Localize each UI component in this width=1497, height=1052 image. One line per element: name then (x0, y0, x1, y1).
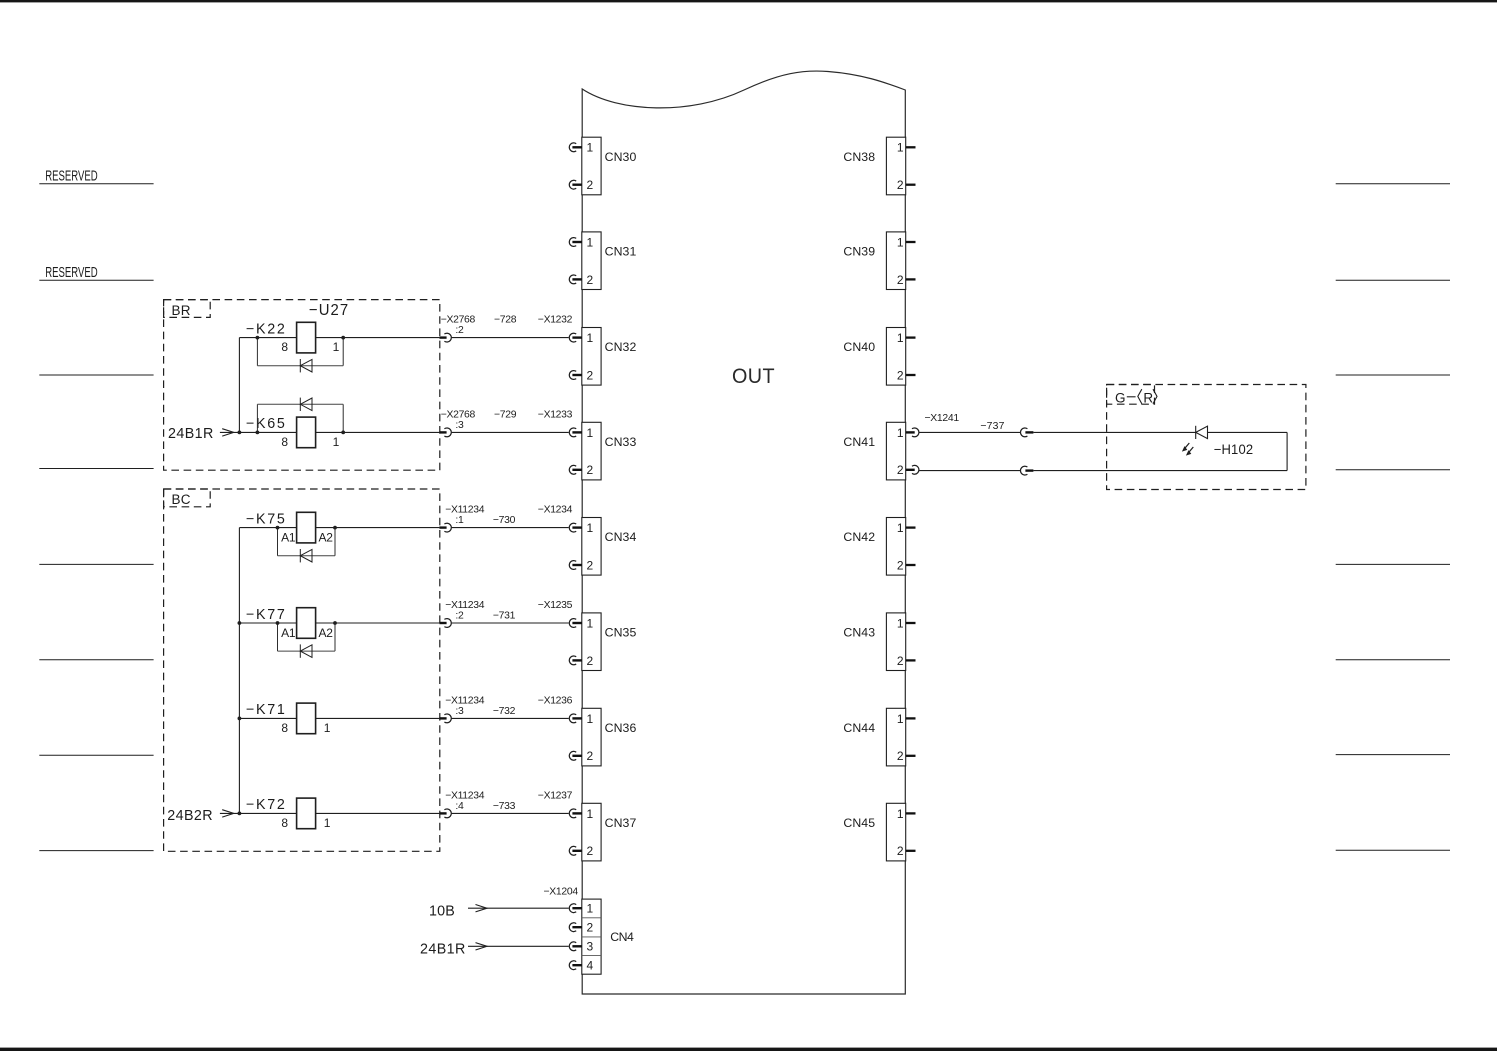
svg-text:−731: −731 (493, 611, 516, 622)
svg-text:−X1233: −X1233 (538, 409, 573, 420)
A1/A2 labels K75 (281, 531, 333, 545)
svg-text:2: 2 (587, 178, 594, 192)
connector CN43 (843, 613, 905, 671)
svg-text:8: 8 (281, 816, 288, 830)
wire 24B1R entry (220, 429, 240, 436)
svg-text:−X2768: −X2768 (441, 315, 476, 326)
relay coil -K71 (297, 703, 316, 734)
svg-text:CN38: CN38 (843, 150, 875, 164)
svg-text:CN4: CN4 (610, 930, 634, 944)
junction 24B2R rail (238, 812, 242, 816)
connector CN32 (582, 328, 637, 386)
svg-text:1: 1 (897, 141, 904, 155)
pin 2 socket of CN31 (569, 275, 582, 284)
svg-text:8: 8 (281, 340, 288, 354)
svg-text:CN37: CN37 (605, 816, 637, 830)
svg-text:10B: 10B (429, 903, 455, 919)
suppressor diode loop of -K65 (257, 398, 343, 433)
connector CN38 (843, 137, 905, 195)
svg-text:1: 1 (897, 426, 904, 440)
terminal row line (right margin) (1336, 279, 1450, 281)
junction dots -K77 (276, 621, 337, 625)
pin 1 socket of CN31 (569, 238, 582, 247)
LED emission arrows (1182, 443, 1193, 456)
svg-text:CN31: CN31 (605, 245, 637, 259)
terminal row line (right margin) (1336, 563, 1450, 565)
connector CN34 (582, 518, 637, 576)
svg-text:−K65: −K65 (246, 416, 287, 432)
terminal socket at enclosure edge (row CN37) (439, 809, 451, 818)
svg-text::4: :4 (455, 801, 464, 812)
BR rail wire (238, 338, 240, 433)
svg-text:RESERVED: RESERVED (45, 264, 97, 281)
svg-text:CN43: CN43 (843, 626, 875, 640)
pin 2 stub of CN38 (906, 184, 916, 186)
terminal row line (right margin) (1336, 659, 1450, 661)
connector CN42 (843, 518, 905, 576)
svg-text:24B1R: 24B1R (420, 941, 466, 957)
pin 1 stub of CN45 (906, 812, 916, 814)
connector CN40 (843, 328, 905, 386)
junction 24B1R rail (238, 431, 242, 435)
wire 737 continues (1033, 431, 1195, 433)
svg-text:−X11234: −X11234 (445, 790, 485, 801)
svg-text:2: 2 (587, 368, 594, 382)
svg-text:1: 1 (587, 902, 594, 916)
svg-text:1: 1 (897, 521, 904, 535)
svg-text:2: 2 (897, 654, 904, 668)
svg-text:−X1236: −X1236 (538, 695, 573, 706)
connector CN45 (843, 803, 905, 861)
wire rail to coil -K72 (239, 812, 296, 814)
dashed enclosure BC (164, 489, 440, 851)
wire to CN33 pin 1 (452, 431, 569, 433)
wire coil to terminal -K65 (316, 431, 440, 433)
svg-text:−K77: −K77 (246, 607, 287, 623)
svg-text:1: 1 (587, 426, 594, 440)
svg-text:−U27: −U27 (309, 302, 349, 320)
relay coil -K77 (297, 608, 316, 639)
svg-text:2: 2 (897, 368, 904, 382)
pin 1 stub of CN38 (906, 146, 916, 148)
pin 2 socket of CN36 (569, 751, 582, 760)
junction dots -K75 (276, 526, 337, 530)
wire to CN37 pin 1 (452, 812, 569, 814)
svg-text:−729: −729 (494, 409, 517, 420)
connector CN4 (582, 899, 634, 974)
pin 1 socket of CN33 (569, 428, 582, 437)
pin 2 stub of CN43 (906, 659, 916, 661)
wire 24B1R to CN4:3 (468, 943, 569, 950)
svg-text:1: 1 (587, 141, 594, 155)
svg-text::2: :2 (455, 611, 464, 622)
svg-text:2: 2 (897, 749, 904, 763)
connector CN39 (843, 232, 905, 290)
wire rail to coil -K22 (239, 337, 296, 339)
wire CN41:1 to lamp (919, 431, 1020, 433)
svg-text:−K71: −K71 (246, 702, 287, 718)
svg-text:1: 1 (333, 340, 340, 354)
connector CN30 (582, 137, 637, 195)
terminal socket at enclosure edge (row CN36) (439, 714, 451, 723)
connector CN31 (582, 232, 637, 290)
wire coil to terminal -K22 (316, 337, 440, 339)
svg-text:CN33: CN33 (605, 435, 637, 449)
CN4 pin socket (569, 923, 582, 932)
svg-text::1: :1 (455, 515, 464, 526)
svg-text:2: 2 (587, 654, 594, 668)
svg-text:R: R (1143, 390, 1153, 405)
pin 1 stub of CN43 (906, 622, 916, 624)
inline connector on return wire (1020, 466, 1033, 475)
pin 2 stub of CN40 (906, 374, 916, 376)
dashed enclosure G-(R) (1107, 385, 1306, 490)
wire coil to terminal -K77 (316, 622, 440, 624)
terminal row line (left margin) (39, 563, 153, 565)
svg-text:2: 2 (897, 178, 904, 192)
pin 2 socket of CN34 (569, 561, 582, 570)
svg-text:−X1232: −X1232 (538, 315, 573, 326)
terminal row line (left margin) (39, 754, 153, 756)
wire coil to terminal -K75 (316, 527, 440, 529)
svg-text:1: 1 (897, 235, 904, 249)
relay coil -K72 (297, 798, 316, 829)
wire to CN36 pin 1 (452, 717, 569, 719)
pin 1 socket of CN37 (569, 809, 582, 818)
suppressor diode loop of -K75 (278, 528, 336, 563)
connector CN44 (843, 708, 905, 766)
svg-text:−H102: −H102 (1214, 441, 1254, 457)
svg-text:CN30: CN30 (605, 150, 637, 164)
svg-text:A1: A1 (281, 531, 296, 545)
pin 1 socket of CN35 (569, 619, 582, 628)
BC tag box (164, 489, 211, 507)
svg-text:CN40: CN40 (843, 340, 875, 354)
relay coil -K75 (297, 512, 316, 543)
pin 2 socket of CN33 (569, 465, 582, 474)
svg-text:RESERVED: RESERVED (45, 167, 97, 184)
pin 2 socket of CN30 (569, 180, 582, 189)
wire to CN35 pin 1 (452, 622, 569, 624)
svg-text:−X1237: −X1237 (538, 790, 573, 801)
A1/A2 labels K77 (281, 626, 333, 640)
svg-text:1: 1 (587, 807, 594, 821)
svg-text:−X11234: −X11234 (445, 695, 485, 706)
wire coil to terminal -K71 (316, 717, 440, 719)
wire rail to coil -K77 (239, 622, 296, 624)
svg-text:1: 1 (897, 807, 904, 821)
pin 1 socket of CN30 (569, 143, 582, 152)
svg-text:−732: −732 (493, 706, 516, 717)
svg-text:2: 2 (897, 844, 904, 858)
connector CN41 (843, 422, 905, 480)
terminal row line (right margin) (1336, 469, 1450, 471)
lamp loop wire (1208, 432, 1288, 470)
svg-text:CN34: CN34 (605, 530, 637, 544)
pin 2 socket of CN32 (569, 371, 582, 380)
wire 24B2R entry (220, 810, 240, 817)
dashed enclosure BR (164, 300, 440, 471)
BC rail wire (238, 528, 240, 814)
pin 1 stub of CN42 (906, 526, 916, 528)
svg-text:2: 2 (587, 921, 594, 935)
wire rail to coil -K71 (239, 717, 296, 719)
CN4 pin socket (569, 961, 582, 970)
terminal socket at enclosure edge (row CN33) (439, 428, 451, 437)
svg-text:1: 1 (587, 235, 594, 249)
connector CN33 (582, 422, 637, 480)
svg-text:1: 1 (324, 816, 331, 830)
G-(R) tag text (1115, 389, 1157, 405)
svg-text:1: 1 (324, 721, 331, 735)
pin 2 stub of CN45 (906, 850, 916, 852)
svg-text:1: 1 (897, 331, 904, 345)
pin 2 socket of CN41 (906, 465, 919, 474)
svg-text:OUT: OUT (732, 364, 775, 388)
pin 1 stub of CN44 (906, 717, 916, 719)
svg-text:4: 4 (587, 959, 594, 973)
svg-text:1: 1 (587, 712, 594, 726)
terminal row line (right margin) (1336, 849, 1450, 851)
svg-text:CN41: CN41 (843, 435, 875, 449)
svg-text:−K75: −K75 (246, 511, 287, 527)
BR tag box (164, 300, 211, 318)
svg-text:A1: A1 (281, 626, 296, 640)
svg-text:−X1241: −X1241 (925, 413, 960, 424)
suppressor diode loop of -K22 (257, 338, 343, 373)
svg-text:2: 2 (587, 273, 594, 287)
svg-text:−X1204: −X1204 (544, 886, 579, 897)
svg-text:CN32: CN32 (605, 340, 637, 354)
svg-text:−X1234: −X1234 (538, 505, 573, 516)
junction K77 rail (238, 621, 242, 625)
suppressor diode loop of -K77 (278, 623, 336, 658)
svg-text:2: 2 (587, 558, 594, 572)
pin 1 socket of CN34 (569, 523, 582, 532)
terminal row line (left margin) (39, 659, 153, 661)
svg-text:2: 2 (897, 273, 904, 287)
relay coil -K22 (297, 322, 316, 353)
svg-text:−K72: −K72 (246, 797, 287, 813)
svg-text:−728: −728 (494, 315, 517, 326)
svg-text:−737: −737 (980, 421, 1004, 432)
wire coil to terminal -K72 (316, 812, 440, 814)
terminal row line (right margin) (1336, 374, 1450, 376)
terminal row line (right margin) (1336, 754, 1450, 756)
svg-text:3: 3 (587, 940, 594, 954)
svg-text:−X11234: −X11234 (445, 600, 485, 611)
CN4 pin socket (569, 904, 582, 913)
svg-text:2: 2 (587, 749, 594, 763)
svg-text:2: 2 (587, 463, 594, 477)
reserved row 1 line (39, 183, 153, 185)
svg-text:CN36: CN36 (605, 721, 637, 735)
svg-text:CN45: CN45 (843, 816, 875, 830)
svg-text::3: :3 (455, 420, 464, 431)
svg-text:CN42: CN42 (843, 530, 875, 544)
return wire to lamp loop (1033, 470, 1287, 472)
svg-text:8: 8 (281, 435, 288, 449)
svg-text::2: :2 (455, 325, 464, 336)
svg-text:24B2R: 24B2R (167, 808, 213, 824)
svg-text:−730: −730 (493, 515, 516, 526)
pin 1 stub of CN40 (906, 336, 916, 338)
svg-text:1: 1 (897, 616, 904, 630)
svg-text:A2: A2 (319, 626, 334, 640)
svg-text:−X11234: −X11234 (445, 505, 485, 516)
wire rail to coil -K75 (239, 527, 296, 529)
terminal row line (left margin) (39, 850, 153, 852)
svg-text:1: 1 (587, 616, 594, 630)
svg-text:BC: BC (172, 492, 191, 507)
reserved row 2 line (39, 279, 153, 281)
svg-text:1: 1 (587, 521, 594, 535)
junction dots -K22 (256, 336, 346, 340)
svg-text::3: :3 (455, 706, 464, 717)
wire to CN32 pin 1 (452, 337, 569, 339)
module OUT outline (torn top edge) (582, 71, 905, 994)
terminal socket at enclosure edge (row CN32) (439, 333, 451, 342)
svg-text:−K22: −K22 (246, 321, 287, 337)
pin 2 stub of CN42 (906, 564, 916, 566)
svg-text:1: 1 (897, 712, 904, 726)
pin 2 socket of CN37 (569, 846, 582, 855)
wire 10B to CN4:1 (468, 905, 569, 912)
LED -H102 (1196, 426, 1208, 439)
svg-text:−X2768: −X2768 (441, 409, 476, 420)
connector CN35 (582, 613, 637, 671)
svg-text:−X1235: −X1235 (538, 600, 573, 611)
svg-text:−733: −733 (493, 801, 516, 812)
pin 1 stub of CN39 (906, 241, 916, 243)
svg-text:CN35: CN35 (605, 626, 637, 640)
junction K71 rail (238, 717, 242, 721)
svg-text:BR: BR (172, 303, 191, 318)
svg-text:CN39: CN39 (843, 245, 875, 259)
svg-text:2: 2 (897, 463, 904, 477)
pin 1 socket of CN32 (569, 333, 582, 342)
relay coil -K65 (297, 417, 316, 448)
wire rail to coil -K65 (239, 431, 296, 433)
wire to CN34 pin 1 (452, 527, 569, 529)
pin 2 stub of CN44 (906, 755, 916, 757)
pin 1 socket of CN36 (569, 714, 582, 723)
pin 2 stub of CN39 (906, 278, 916, 280)
svg-text:24B1R: 24B1R (168, 426, 214, 442)
svg-text:CN44: CN44 (843, 721, 875, 735)
terminal socket at enclosure edge (row CN35) (439, 619, 451, 628)
svg-text:1: 1 (333, 435, 340, 449)
pin 1 socket of CN41 (906, 428, 919, 437)
connector CN37 (582, 803, 637, 861)
svg-text:A2: A2 (319, 531, 334, 545)
terminal row line (left margin) (39, 374, 153, 376)
connector CN36 (582, 708, 637, 766)
svg-text:G: G (1115, 390, 1126, 405)
inline connector on wire 737 (1020, 428, 1033, 437)
svg-text:2: 2 (897, 558, 904, 572)
terminal row line (right margin) (1336, 183, 1450, 185)
wire CN41:2 (919, 470, 1020, 472)
svg-text:1: 1 (587, 331, 594, 345)
terminal row line (left margin) (39, 468, 153, 470)
terminal socket at enclosure edge (row CN34) (439, 523, 451, 532)
CN4 pin socket (569, 942, 582, 951)
junction dots -K65 (256, 431, 346, 435)
svg-text:2: 2 (587, 844, 594, 858)
svg-text:8: 8 (281, 721, 288, 735)
pin 2 socket of CN35 (569, 656, 582, 665)
G-(R) tag box (1107, 385, 1155, 405)
